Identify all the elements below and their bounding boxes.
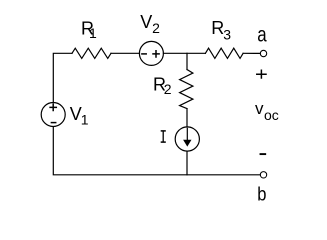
label R1 [81,19,97,41]
V2 minus sign [142,53,146,55]
svg-text:1: 1 [81,112,89,128]
plus sign of voc [257,70,266,78]
wire node to R2 [186,53,188,69]
I arrow [186,128,188,141]
wire R3 to terminal a [243,52,260,54]
svg-text:v: v [255,99,264,118]
terminal b open circle [260,172,266,178]
V1 plus sign [50,104,56,110]
label voc [255,99,279,123]
wire top-left rail from V1 top to R1 [53,53,72,102]
wire R1 to V2 [111,52,140,54]
V2 plus sign [153,51,159,57]
resistor R1 [72,48,111,58]
current source I [175,127,199,151]
resistor R3 [205,48,243,58]
wire bottom rail from V1 to terminal b [53,127,260,175]
svg-text:2: 2 [152,20,160,36]
svg-text:2: 2 [164,81,172,97]
voltage source V1 [41,103,65,127]
wire R2 to current source I [186,109,188,127]
terminal a open circle [260,50,266,56]
V1 minus sign [51,122,55,124]
svg-text:a: a [257,24,267,47]
svg-text:V: V [140,12,152,32]
svg-text:b: b [257,185,266,206]
resistor R2 [180,70,193,109]
svg-text:1: 1 [89,25,97,41]
label V1 [70,104,89,128]
wire I to bottom rail [186,151,188,175]
svg-text:3: 3 [223,27,231,43]
label I (serif style drawn) [161,131,166,142]
svg-text:oc: oc [264,107,279,123]
voltage source V2 [139,41,163,65]
minus sign of voc [261,153,266,155]
label V2 [140,12,160,36]
label R3 [211,18,231,43]
label R2 [153,74,172,97]
wire V2 to R3 through node [163,52,205,54]
